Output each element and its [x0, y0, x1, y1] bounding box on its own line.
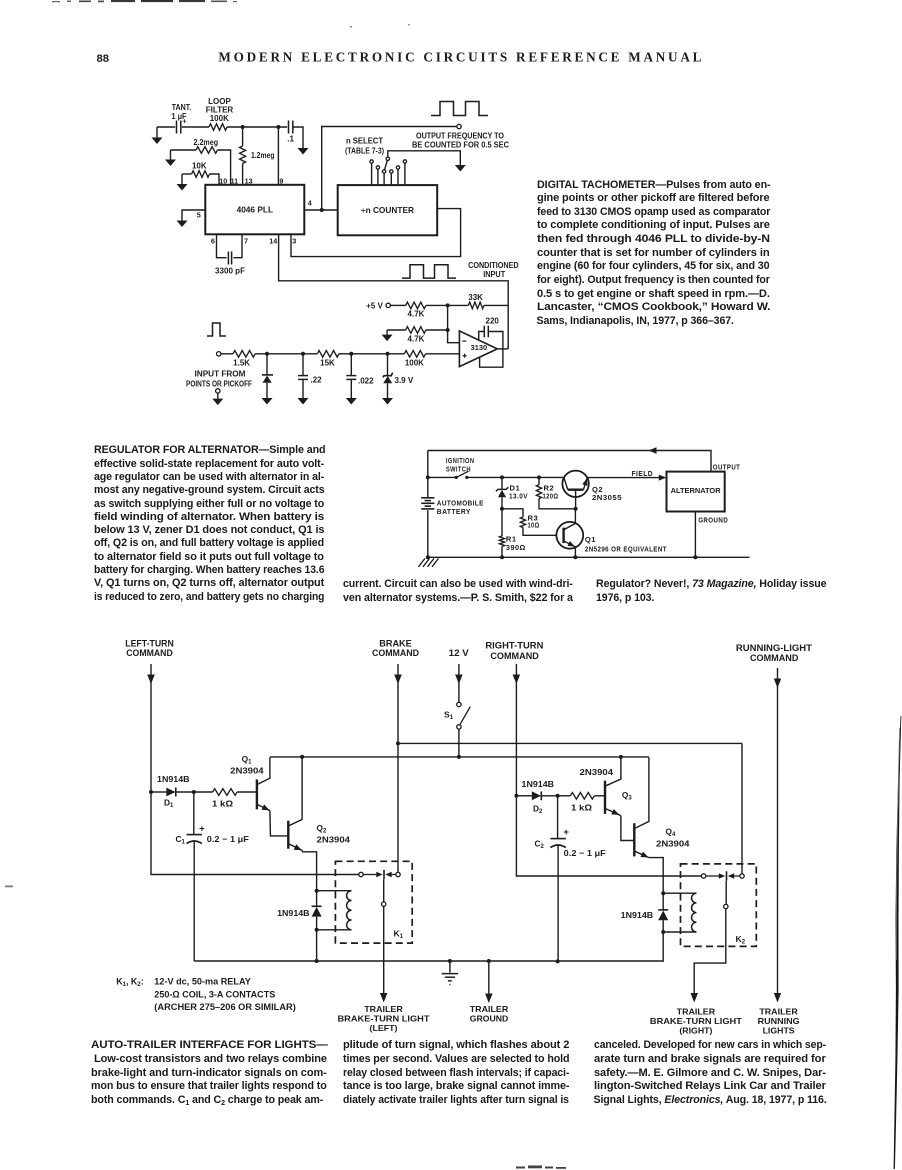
svg-text:2N3904: 2N3904	[656, 838, 690, 848]
svg-text:Q3: Q3	[622, 790, 632, 802]
ground chassis regulator	[419, 558, 439, 566]
node junction loop filter / pin13	[241, 125, 245, 129]
text block auto-trailer column 2	[343, 1039, 574, 1107]
ignition switch	[428, 471, 469, 479]
relay K1 coil	[317, 891, 352, 930]
svg-text:Q1: Q1	[242, 754, 252, 766]
wire 12V to switch	[458, 664, 460, 702]
transistor Q3 2N3904	[605, 757, 621, 815]
svg-text:11: 11	[230, 176, 238, 185]
svg-text:LIGHTS: LIGHTS	[763, 1025, 795, 1035]
wire K2 coil to ground bus	[662, 932, 664, 962]
wire switch to bus	[458, 729, 460, 757]
zener diode 3.9V	[382, 354, 414, 405]
svg-text:88: 88	[97, 53, 110, 65]
resistor 100K input	[404, 351, 459, 368]
svg-text:(LEFT): (LEFT)	[370, 1023, 398, 1033]
wire trailer ground drop	[488, 961, 490, 994]
scan artifact top edge dashes	[52, 0, 410, 28]
svg-text:GROUND: GROUND	[698, 516, 728, 525]
svg-text:12-V dc, 50-ma RELAY: 12-V dc, 50-ma RELAY	[154, 977, 251, 987]
wire op-amp strobe loop	[480, 349, 503, 367]
svg-text:10K: 10K	[192, 161, 207, 170]
node junction trailer ground drop	[487, 959, 491, 963]
wire Q2 emitter to field	[587, 477, 660, 479]
label D1 13.0V	[509, 483, 528, 500]
svg-text:INPUT FROM: INPUT FROM	[195, 370, 246, 379]
wire rail to zener	[351, 353, 404, 355]
svg-text:Q1: Q1	[585, 535, 596, 544]
resistor 1k left	[194, 789, 257, 796]
relay K1 contacts	[359, 870, 400, 879]
transistor Q1 2N5296	[556, 509, 583, 558]
svg-text:BATTERY: BATTERY	[437, 507, 471, 516]
node junction Q2 collector bus	[300, 755, 304, 759]
input terminal circle	[217, 352, 221, 356]
wire counter output to pin3	[291, 209, 461, 257]
scan artifact left margin dash	[5, 886, 13, 888]
ground at 2.2meg	[165, 150, 176, 166]
svg-text:BRAKE-TURN LIGHT: BRAKE-TURN LIGHT	[338, 1013, 430, 1023]
node junction Q1 emitter rail	[573, 555, 577, 559]
svg-text:.22: .22	[311, 375, 323, 384]
svg-text:Q4: Q4	[666, 827, 676, 839]
relay K1 dashed box	[335, 861, 412, 943]
svg-text:OUTPUT: OUTPUT	[713, 462, 741, 471]
svg-text:1N914B: 1N914B	[621, 910, 654, 920]
node junction brake bus	[396, 741, 400, 745]
arrowhead running-light bottom	[774, 993, 781, 1003]
node junction D1 left-turn	[149, 790, 153, 794]
arrowhead right-turn	[513, 675, 521, 685]
label TRAILER BRAKE-TURN LIGHT LEFT	[338, 1004, 430, 1033]
arrowhead brake	[394, 675, 402, 685]
svg-text:+5 V: +5 V	[366, 301, 383, 310]
switch S1	[457, 702, 471, 729]
transistor Q4 2N3904	[634, 757, 649, 857]
svg-text:1N914B: 1N914B	[522, 779, 555, 789]
label Q3 2N3904	[580, 767, 633, 802]
pin 4 output wire	[304, 199, 337, 211]
svg-text:10: 10	[219, 176, 227, 185]
node junction pin4	[320, 208, 324, 212]
diode K1 flyback 1N914B	[312, 891, 322, 930]
svg-text:10Ω: 10Ω	[528, 520, 540, 529]
svg-text:+: +	[199, 824, 205, 835]
wire right-turn to K2 contact	[516, 796, 701, 876]
node junction K1 coil top	[315, 889, 319, 893]
label INPUT FROM POINTS OR PICKOFF	[186, 370, 252, 389]
svg-text:120Ω: 120Ω	[543, 491, 559, 500]
wire 12V bus	[270, 756, 649, 758]
output terminal circle	[457, 124, 461, 128]
label Q2 2N3904	[317, 823, 351, 844]
resistor R1 390	[499, 509, 504, 558]
svg-text:C2: C2	[535, 838, 545, 850]
arrowhead field	[659, 475, 667, 481]
resistor 1k right	[558, 793, 605, 800]
label R3 10ohm	[528, 513, 540, 529]
wire Q3 emitter to Q4 base	[621, 816, 634, 841]
text block digital tachometer	[537, 179, 775, 329]
svg-text:2N3904: 2N3904	[317, 835, 351, 845]
wire battery left vertical	[427, 451, 429, 558]
svg-text:6: 6	[211, 236, 215, 245]
capacitor tantalum 1uF	[177, 117, 188, 134]
label R2 120ohm	[543, 483, 559, 500]
label TRAILER GROUND	[470, 1004, 509, 1024]
svg-text:7: 7	[244, 236, 248, 245]
relay K2 contacts	[701, 871, 744, 880]
transistor Q1 2N3904	[257, 757, 270, 810]
pulse symbol input	[207, 323, 226, 336]
node junction diode clamp	[265, 352, 269, 356]
arrowhead running-light top	[774, 679, 781, 689]
node junction .022	[349, 352, 353, 356]
node junction coil return left	[315, 959, 319, 963]
svg-text:AUTOMOBILE: AUTOMOBILE	[437, 498, 484, 507]
n-select switch arm	[385, 157, 390, 170]
node junction 4.7K/33K	[446, 303, 450, 307]
resistor 2.2meg	[171, 147, 231, 185]
svg-text:2N5296 OR EQUIVALENT: 2N5296 OR EQUIVALENT	[585, 544, 667, 553]
svg-text:3: 3	[292, 236, 296, 245]
arrowhead trailer ground	[485, 994, 493, 1004]
scan artifact bottom smudge	[516, 1166, 566, 1169]
svg-text:1 kΩ: 1 kΩ	[571, 803, 592, 813]
diode K2 flyback 1N914B	[658, 893, 668, 932]
svg-text:.1: .1	[287, 135, 294, 144]
resistor 33K feedback	[448, 293, 509, 309]
label BRAKE COMMAND	[372, 637, 419, 657]
node junction inverting input	[446, 305, 450, 332]
wire loop-filter top rail	[157, 127, 303, 148]
svg-text:1.5K: 1.5K	[233, 358, 250, 367]
svg-text:4.7K: 4.7K	[408, 310, 425, 319]
node junction battery switch	[426, 475, 430, 479]
battery automobile	[421, 498, 434, 509]
wire running-light line	[777, 668, 779, 993]
svg-text:250-Ω COIL, 3-A CONTACTS: 250-Ω COIL, 3-A CONTACTS	[154, 989, 275, 999]
label LOOP FILTER 100K	[206, 97, 234, 123]
alternator box	[667, 472, 725, 512]
label K1 K2 relay note	[116, 977, 296, 1012]
text block auto-trailer column 3	[594, 1039, 831, 1107]
arrowhead trailer brake-turn left	[380, 993, 388, 1003]
svg-text:Q2: Q2	[317, 823, 327, 835]
svg-text:K1: K1	[394, 929, 404, 941]
svg-text:33K: 33K	[468, 293, 483, 302]
svg-text:COMMAND: COMMAND	[126, 647, 173, 658]
op-amp U3 3130	[459, 331, 497, 367]
svg-text:TRAILER: TRAILER	[677, 1006, 716, 1016]
diode D2 1N914B	[516, 791, 557, 800]
svg-text:14: 14	[269, 236, 277, 245]
wire op-amp output	[497, 348, 508, 350]
label Q1 2N3904	[230, 754, 264, 776]
wire alternator ground	[694, 512, 696, 558]
svg-text:1N914B: 1N914B	[157, 774, 190, 784]
arrowhead trailer brake-turn right	[691, 993, 699, 1003]
wire Q1 emitter to Q2 base	[270, 811, 288, 836]
transistor Q2 2N3904	[288, 757, 302, 850]
+5V terminal	[366, 301, 390, 310]
wire input rail	[267, 353, 317, 355]
node junction C1 tap	[192, 790, 196, 794]
svg-text:COMMAND: COMMAND	[750, 652, 799, 663]
node junction R2 top	[537, 475, 541, 479]
ground chassis trailer	[442, 961, 458, 985]
svg-text:1.2meg: 1.2meg	[251, 151, 275, 160]
op IC U2 divide-by-n counter box	[338, 185, 438, 235]
node junction D1 bottom	[500, 507, 504, 511]
wire regulator bottom rail	[428, 556, 750, 558]
wire node B to R3	[502, 509, 523, 517]
node junction rail left	[426, 555, 430, 559]
svg-text:TRAILER: TRAILER	[364, 1004, 403, 1014]
capacitor .022	[346, 354, 374, 405]
wire brake bus to K2 contact	[741, 743, 743, 873]
svg-text:INPUT: INPUT	[483, 270, 505, 279]
node junction K1 coil bottom	[315, 928, 319, 932]
op IC U1 4046 PLL box	[205, 185, 304, 235]
text block regulator never reference	[596, 578, 831, 605]
node junction alternator ground rail	[693, 555, 697, 559]
wire pin9	[277, 127, 279, 185]
svg-text:ALTERNATOR: ALTERNATOR	[671, 486, 722, 495]
diode D1 1N914B	[151, 788, 194, 797]
arrowhead on top rail	[649, 447, 657, 454]
svg-text:SWITCH: SWITCH	[446, 464, 471, 473]
wire right-turn command line	[515, 664, 517, 796]
label Q1 2N5296 OR EQUIVALENT	[585, 535, 667, 553]
node junction D1 top	[500, 475, 504, 479]
ground at 10K	[177, 174, 188, 191]
svg-text:RUNNING-LIGHT: RUNNING-LIGHT	[736, 642, 812, 653]
label n SELECT (TABLE 7-3)	[345, 136, 384, 155]
label RIGHT-TURN COMMAND	[485, 640, 543, 661]
resistor 100K loop filter	[209, 124, 227, 131]
label R1 390ohm	[506, 535, 526, 552]
svg-text:TRAILER: TRAILER	[470, 1004, 509, 1014]
label TRAILER RUNNING LIGHTS	[758, 1006, 800, 1035]
zener diode D1 13.0V	[496, 477, 508, 508]
n-select contact stubs	[370, 160, 407, 185]
arrowhead 12V	[455, 675, 463, 685]
ground at 4.7K lower	[382, 330, 393, 341]
svg-text:D1: D1	[164, 797, 174, 809]
svg-text:+: +	[563, 827, 569, 838]
relay K2 dashed box	[681, 864, 757, 947]
resistor R3 10	[520, 517, 556, 535]
text block current circuit continuation	[343, 578, 578, 605]
node junction S1 bus	[457, 755, 461, 759]
svg-text:GROUND: GROUND	[470, 1013, 509, 1023]
svg-text:TRAILER: TRAILER	[759, 1006, 798, 1016]
svg-text:COMMAND: COMMAND	[372, 647, 419, 658]
scan artifact right edge curl	[894, 716, 902, 1169]
input ground terminal	[212, 389, 223, 405]
svg-text:4.7K: 4.7K	[408, 335, 425, 344]
svg-text:390Ω: 390Ω	[506, 543, 526, 552]
label IGNITION SWITCH	[446, 456, 475, 474]
label TANT. 1uF	[172, 103, 192, 121]
svg-text:POINTS OR PICKOFF: POINTS OR PICKOFF	[186, 379, 252, 388]
svg-text:COMMAND: COMMAND	[490, 650, 539, 661]
node junction C2 ground bus	[556, 959, 560, 963]
node junction K2 coil bottom	[661, 930, 665, 934]
wire left-turn to relay contact	[151, 792, 359, 875]
svg-text:TANT.: TANT.	[172, 103, 192, 112]
wire K1 coil to ground bus	[316, 930, 318, 961]
wire brake to K1 contact	[397, 743, 399, 872]
svg-text:13: 13	[245, 176, 253, 185]
node junction R1 rail	[500, 555, 504, 559]
svg-text:D2: D2	[533, 804, 543, 816]
svg-text:.022: .022	[358, 376, 374, 385]
svg-text:3300 pF: 3300 pF	[215, 266, 245, 275]
relay K2 coil	[663, 893, 696, 932]
svg-text:4046 PLL: 4046 PLL	[237, 204, 273, 214]
svg-text:K2: K2	[736, 934, 746, 946]
resistor 15K	[317, 351, 351, 368]
n-select switch wire to ground	[388, 151, 466, 172]
wire brake command line	[397, 664, 399, 743]
svg-text:100K: 100K	[405, 358, 424, 367]
svg-text:MODERN ELECTRONIC CIRCUITS REF: MODERN ELECTRONIC CIRCUITS REFERENCE MAN…	[218, 50, 704, 65]
pin 5 wire and ground	[177, 210, 206, 227]
svg-text:13.0V: 13.0V	[509, 491, 528, 500]
resistor 10K	[182, 171, 219, 185]
wire pin14 conditioned input	[269, 234, 508, 349]
svg-text:2N3055: 2N3055	[592, 493, 622, 502]
capacitor C2	[550, 796, 569, 962]
wire switch to Q2	[467, 476, 564, 478]
label OUTPUT FREQUENCY TO BE COUNTED FOR 0.5 SEC	[412, 131, 509, 149]
node junction pin9 tap	[276, 125, 280, 129]
svg-text:3.9 V: 3.9 V	[395, 376, 414, 385]
svg-text:1N914B: 1N914B	[277, 908, 310, 918]
label LEFT-TURN COMMAND	[125, 637, 174, 657]
svg-text:0.2 − 1 μF: 0.2 − 1 μF	[564, 848, 606, 858]
ground at loop filter input	[152, 127, 163, 144]
svg-text:BRAKE-TURN LIGHT: BRAKE-TURN LIGHT	[650, 1016, 742, 1026]
svg-text:RUNNING: RUNNING	[758, 1016, 800, 1026]
node junction .22	[301, 352, 305, 356]
resistor 4.7K lower	[387, 327, 448, 344]
node junction K2 coil top	[661, 891, 665, 895]
diode clamp to ground	[262, 354, 274, 405]
node junction Q2 base	[574, 507, 578, 511]
wire battery to alternator output top rail	[428, 451, 711, 472]
wire ground bus	[194, 960, 663, 962]
resistor 1.2meg	[240, 127, 246, 185]
ground at .1 capacitor	[298, 148, 309, 155]
resistor R2 120	[536, 477, 575, 508]
label CONDITIONED INPUT	[468, 261, 519, 279]
svg-text:FIELD: FIELD	[632, 469, 654, 478]
transistor Q2 2N3055	[562, 471, 588, 509]
svg-text:CONDITIONED: CONDITIONED	[468, 261, 519, 270]
svg-text:÷n COUNTER: ÷n COUNTER	[361, 205, 414, 215]
svg-text:0.2 − 1 μF: 0.2 − 1 μF	[207, 834, 249, 844]
svg-text:2N3904: 2N3904	[580, 767, 614, 777]
wire left-turn command line	[150, 664, 152, 792]
node junction C2 tap	[556, 794, 560, 798]
resistor 1.5K	[221, 351, 267, 368]
node junction chassis ground	[448, 959, 452, 963]
label Q2 2N3055	[592, 485, 622, 502]
svg-text:15K: 15K	[320, 358, 335, 367]
svg-text:12 V: 12 V	[449, 647, 470, 658]
wire brake bus	[398, 742, 742, 744]
svg-text:OUTPUT FREQUENCY TO: OUTPUT FREQUENCY TO	[416, 131, 504, 140]
label TRAILER BRAKE-TURN LIGHT RIGHT	[650, 1006, 742, 1035]
node junction D2 right-turn	[514, 794, 518, 798]
svg-text:2.2meg: 2.2meg	[194, 138, 219, 147]
capacitor 220 feedback	[479, 317, 503, 349]
relay K1 pole	[382, 879, 386, 993]
wire Q4 emitter to relay coil	[649, 858, 663, 894]
svg-text:1 kΩ: 1 kΩ	[212, 799, 233, 809]
square wave symbol output	[431, 102, 488, 116]
svg-text:100K: 100K	[210, 114, 229, 123]
capacitor C1	[187, 792, 206, 961]
svg-text:C1: C1	[176, 834, 186, 846]
label RUNNING-LIGHT COMMAND	[736, 642, 812, 663]
svg-text:n SELECT: n SELECT	[346, 136, 383, 145]
node junction zener	[386, 352, 390, 356]
label AUTOMOBILE BATTERY	[437, 498, 484, 516]
svg-text:2N3904: 2N3904	[230, 766, 264, 776]
relay K2 pole	[694, 881, 728, 993]
square wave symbol conditioned input	[402, 265, 456, 278]
capacitor .1	[289, 121, 293, 134]
svg-text:(RIGHT): (RIGHT)	[679, 1025, 712, 1035]
svg-text:220: 220	[486, 317, 500, 326]
svg-text:4: 4	[308, 199, 312, 208]
svg-text:K1, K2:: K1, K2:	[116, 977, 144, 989]
wire Q2 emitter to relay coil	[302, 850, 317, 890]
text block auto-trailer column 1	[91, 1039, 332, 1107]
svg-text:(TABLE 7-3): (TABLE 7-3)	[345, 147, 384, 156]
capacitor .22	[298, 354, 323, 405]
wire to inverting input	[448, 330, 460, 343]
svg-text:BE COUNTED FOR 0.5 SEC: BE COUNTED FOR 0.5 SEC	[412, 141, 509, 150]
arrowhead left-turn	[147, 675, 155, 685]
svg-text:3130: 3130	[471, 343, 487, 352]
svg-text:9: 9	[279, 176, 283, 185]
resistor 4.7K upper	[390, 302, 447, 319]
svg-text:5: 5	[197, 211, 201, 220]
node junction Q3 collector bus	[619, 755, 623, 759]
wire pin4 to output terminal	[322, 127, 457, 211]
svg-text:1 μF: 1 μF	[172, 112, 187, 121]
svg-text:S1: S1	[444, 710, 454, 722]
text block regulator for alternator	[94, 444, 329, 604]
capacitor 3300 pF	[211, 234, 248, 275]
label Q4 2N3904	[656, 827, 690, 849]
svg-text:(ARCHER 275–206 OR SIMILAR): (ARCHER 275–206 OR SIMILAR)	[154, 1002, 296, 1012]
